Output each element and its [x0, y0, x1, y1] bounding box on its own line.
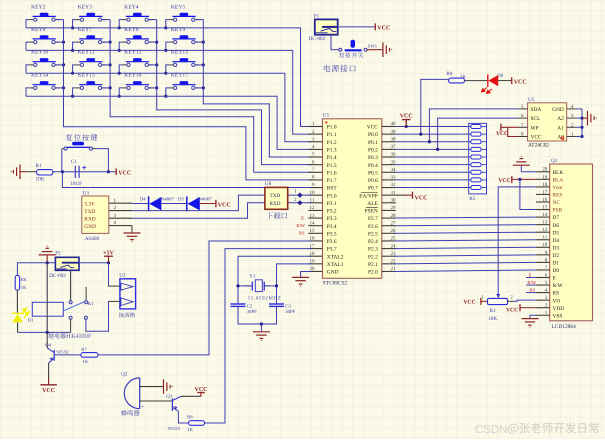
power +5V (P2) [79, 262, 109, 264]
svg-text:Y1: Y1 [249, 273, 256, 279]
svg-text:18: 18 [542, 182, 548, 188]
svg-text:33: 33 [391, 175, 397, 181]
wire KEY8 right leg to column line [148, 41, 156, 43]
svg-text:P0.1: P0.1 [368, 140, 378, 146]
svg-text:P2.6: P2.6 [368, 224, 378, 230]
relay coil box 继电器 [32, 302, 63, 316]
wire XTAL2 to crystal left [238, 256, 311, 304]
wire VCC to PSB [518, 178, 521, 181]
wire KEY13 left leg to row rail [166, 65, 169, 73]
svg-text:1K: 1K [187, 427, 193, 433]
svg-text:P2.7: P2.7 [368, 216, 378, 222]
svg-text:D0: D0 [497, 73, 504, 79]
junction column 2 row 4 [109, 86, 112, 89]
svg-text:30PF: 30PF [285, 309, 295, 315]
svg-text:KEY5: KEY5 [171, 4, 185, 10]
svg-text:P0.0: P0.0 [368, 132, 378, 138]
svg-text:C2: C2 [247, 303, 253, 309]
svg-text:P1.6: P1.6 [327, 170, 337, 176]
capacitor C2 30PF [231, 303, 246, 305]
wire buzzer top to ground [140, 386, 164, 388]
wire KEY3 left leg to row rail [73, 20, 76, 28]
svg-text:Vout: Vout [553, 185, 564, 191]
wire Q3 base to R8 [178, 411, 188, 423]
svg-text:P0.5: P0.5 [368, 170, 378, 176]
power VCC (D0) [511, 77, 513, 84]
wire U1 pin 39 to R5 network [396, 133, 471, 135]
svg-text:13: 13 [542, 220, 548, 226]
wire keypad column 3 to U1 pin 6 [157, 20, 311, 165]
wire K1 lower-right to U2 [86, 301, 109, 331]
wire U1 pin 37 to R5 network [396, 148, 471, 150]
wire +5V to U2 pin [108, 263, 110, 286]
svg-text:U1: U1 [323, 112, 330, 118]
key switch KEY16 [123, 73, 153, 90]
svg-text:12: 12 [310, 205, 316, 211]
svg-text:ALE: ALE [367, 201, 378, 207]
wire P3.7 to R8 [205, 249, 312, 423]
svg-text:40: 40 [391, 121, 397, 127]
svg-text:PSEN: PSEN [365, 209, 378, 215]
svg-text:32: 32 [391, 182, 397, 188]
wire U5 right pins common to ground [581, 109, 583, 137]
svg-text:NC: NC [553, 200, 561, 206]
svg-text:29: 29 [391, 205, 397, 211]
wire Q4 emitter to VCC [48, 363, 50, 379]
svg-text:36: 36 [391, 152, 397, 158]
svg-text:1N4007: 1N4007 [159, 196, 175, 202]
svg-text:VCC: VCC [415, 196, 428, 202]
svg-text:D3: D3 [553, 245, 560, 251]
wire KEY2 right leg to column line [55, 19, 63, 21]
switch K1 [63, 287, 94, 319]
wire KEY16 right leg to column line [148, 87, 156, 89]
svg-text:P0.3: P0.3 [368, 155, 378, 161]
label 双按开关 [339, 53, 364, 58]
wire KEY7 right leg to column line [102, 41, 110, 43]
IC U2 driver [108, 272, 136, 317]
junction row rail 3 at column 3 drop [118, 72, 121, 75]
wire XTAL1 to crystal right [277, 264, 312, 304]
key switch KEY4 [123, 4, 153, 21]
svg-text:30: 30 [391, 198, 397, 204]
wire KEY15 left leg to row rail [73, 88, 76, 96]
junction column 2 row 3 [109, 63, 112, 66]
svg-text:AT24C02: AT24C02 [528, 142, 549, 148]
junction column 1 row 4 [62, 86, 65, 89]
svg-text:P3.4: P3.4 [327, 224, 337, 230]
svg-text:A2: A2 [557, 116, 564, 122]
svg-text:P3.1: P3.1 [327, 201, 337, 207]
svg-text:P1.4: P1.4 [327, 155, 337, 161]
svg-text:D4: D4 [553, 238, 560, 244]
svg-text:C1: C1 [71, 159, 77, 165]
junction column 4 row 2 [202, 41, 205, 44]
svg-text:SW1: SW1 [368, 44, 378, 49]
svg-text:P0.2: P0.2 [368, 147, 378, 153]
svg-text:LCD12864: LCD12864 [552, 324, 577, 330]
svg-text:D1: D1 [553, 261, 560, 267]
svg-text:P3.5: P3.5 [327, 231, 337, 237]
svg-text:AS608: AS608 [85, 236, 100, 242]
wire keypad row rail 1 to U1 pin 1 [26, 28, 311, 127]
wire ground to R1 [20, 171, 26, 173]
svg-text:D7: D7 [553, 215, 560, 221]
svg-text:D0: D0 [553, 268, 560, 274]
wire U5 SDA to P0.1 [429, 109, 518, 142]
wire KEY6 left leg to row rail [26, 42, 29, 50]
svg-text:RST: RST [327, 186, 338, 192]
wire P2.3 to LCD D3 [394, 247, 536, 248]
key switch KEY3 [76, 4, 106, 21]
wire U5 SCL to P0.2 [438, 118, 519, 149]
svg-text:P1.2: P1.2 [327, 140, 337, 146]
svg-text:STC89C52: STC89C52 [323, 280, 348, 286]
svg-text:DC-002: DC-002 [309, 36, 326, 42]
svg-text:Q2: Q2 [121, 371, 128, 377]
svg-text:P2.0: P2.0 [368, 270, 378, 276]
svg-text:34: 34 [391, 167, 397, 173]
wire U1 pin 38 to R5 network [396, 141, 471, 143]
svg-text:R3: R3 [490, 308, 496, 314]
wire U1 pin 35 to R5 network [396, 164, 471, 166]
junction row rail 4 at column 2 drop [71, 95, 74, 98]
svg-text:U6: U6 [265, 181, 272, 187]
wire KEY10 right leg to column line [55, 64, 63, 66]
power VCC (P1) [374, 23, 376, 30]
svg-text:C3: C3 [285, 303, 291, 309]
svg-text:SCL: SCL [531, 116, 541, 122]
wire U1 pin 36 to R5 network [396, 156, 471, 158]
wire AS608 TXD through U6 to P3.0 [132, 195, 311, 211]
wire reset node [53, 171, 116, 173]
potentiometer R3 10K [482, 286, 514, 322]
svg-text:GND: GND [552, 107, 564, 113]
svg-text:15: 15 [310, 228, 316, 234]
svg-text:RS: RS [529, 287, 535, 292]
LED D1 yellow [12, 308, 29, 322]
svg-text:CSDN: CSDN [475, 424, 508, 436]
key switch KEY15 [76, 73, 106, 90]
svg-text:XTAL2: XTAL2 [327, 254, 344, 260]
svg-text:KEY3: KEY3 [78, 4, 92, 10]
svg-text:R9: R9 [447, 71, 453, 77]
power VCC (Q3) [197, 392, 205, 394]
wire KEY11 right leg to column line [102, 64, 110, 66]
wire AS608 GND to ground [131, 226, 133, 233]
wire AS608 RXD through U6 to P3.1 [132, 203, 311, 218]
junction row rail 2 at column 4 drop [164, 49, 167, 52]
svg-text:+5V: +5V [103, 251, 114, 257]
wire R6 to D1 [16, 290, 18, 313]
svg-text:Q4: Q4 [45, 343, 51, 349]
net label R/W (LCD pin5) [526, 284, 536, 286]
svg-text:VCC: VCC [496, 131, 508, 137]
key switch KEY13 [169, 50, 199, 67]
svg-text:RXD: RXD [84, 216, 95, 222]
svg-text:10UF: 10UF [70, 181, 82, 187]
wire P1 to VCC [338, 26, 376, 28]
wire KEY13 right leg to column line [195, 64, 203, 66]
svg-text:BLA: BLA [553, 177, 564, 183]
svg-text:P3.0: P3.0 [327, 193, 337, 199]
svg-text:P3.7: P3.7 [327, 247, 337, 253]
junction row rail 1 at column 2 drop [71, 26, 74, 29]
svg-text:39: 39 [391, 129, 397, 135]
svg-text:D5: D5 [553, 230, 560, 236]
power ground (SW1) [383, 42, 392, 57]
resistor R6 1K [15, 275, 19, 290]
svg-text:GND: GND [84, 224, 96, 230]
wire P2.6 to LCD D6 [394, 225, 536, 226]
svg-text:16: 16 [542, 197, 548, 203]
wire button right leg [96, 149, 109, 172]
svg-text:U5: U5 [528, 97, 535, 103]
junction column 3 row 2 [155, 41, 158, 44]
junction column 4 row 4 [202, 86, 205, 89]
key switch KEY5 [169, 4, 199, 21]
junction column 1 row 2 [62, 41, 65, 44]
wire KEY9 left leg to row rail [166, 42, 169, 50]
key switch KEY12 [123, 50, 153, 67]
power ground (U1 GND) [292, 277, 309, 286]
wire VSS to ground [530, 315, 536, 318]
resistor network R5 [469, 123, 487, 202]
key switch KEY14 [29, 73, 59, 90]
wire KEY7 left leg to row rail [73, 42, 76, 50]
svg-text:VCC: VCC [514, 79, 527, 85]
svg-text:R5: R5 [469, 196, 475, 202]
svg-text:D6: D6 [553, 223, 560, 229]
key switch KEY11 [76, 50, 106, 67]
svg-text:P2.4: P2.4 [368, 239, 378, 245]
label 电源接口 [324, 65, 356, 72]
svg-text:P1.7: P1.7 [327, 178, 337, 184]
wire VO to R3 [514, 300, 537, 301]
power ground (LCD VSS) [522, 319, 539, 328]
svg-text:RS: RS [299, 231, 305, 236]
wire U1 GND pin20 to ground [301, 271, 311, 277]
svg-text:R6: R6 [21, 277, 27, 283]
svg-text:+: + [141, 404, 144, 410]
svg-text:13: 13 [310, 213, 316, 219]
svg-text:D5: D5 [178, 196, 184, 202]
wire KEY4 right leg to column line [148, 19, 156, 21]
wire crystal left lead [238, 285, 252, 287]
wire ground stem [260, 324, 262, 331]
svg-text:DC-002: DC-002 [49, 273, 66, 279]
wire R9 to D0 [465, 80, 488, 82]
wire KEY15 right leg to column line [102, 87, 110, 89]
wire D1 down [17, 322, 19, 332]
wire KEY5 left leg to row rail [166, 20, 169, 28]
power VCC (U1 pin40) [405, 125, 408, 128]
wire KEY16 left leg to row rail [119, 88, 122, 96]
svg-text:17: 17 [542, 189, 548, 195]
key switch KEY2 [29, 4, 59, 21]
power VCC (EA/VPP pin31) [396, 194, 404, 196]
svg-text:P0.7: P0.7 [368, 186, 378, 192]
svg-text:Q1: Q1 [551, 158, 558, 164]
wire keypad row rail 4 to U1 pin 4 [26, 96, 311, 149]
svg-text:30PF: 30PF [247, 309, 257, 315]
wire KEY2 left leg to row rail [26, 20, 29, 28]
wire U1 pin 33 to R5 network [396, 179, 471, 181]
svg-text:U2: U2 [119, 272, 126, 278]
svg-text:R/W: R/W [553, 283, 564, 289]
junction row rail 3 at column 4 drop [164, 72, 167, 75]
wire D4 to D5 [161, 203, 186, 205]
svg-text:D4: D4 [140, 196, 146, 202]
svg-text:20: 20 [542, 167, 548, 173]
wire keypad row rail 2 to U1 pin 2 [26, 50, 311, 134]
crystal Y1 11.0592MHZ [245, 273, 281, 301]
wire keypad column 2 to U1 pin 7 [110, 20, 311, 173]
junction U6/P3.0 [297, 193, 302, 198]
svg-text:VCC: VCC [463, 299, 475, 305]
wire K1 lower-left to rail [70, 319, 72, 332]
svg-text:D1: D1 [28, 317, 34, 323]
svg-text:VCC: VCC [498, 178, 510, 184]
key switch KEY7 [76, 27, 106, 44]
junction column 4 row 3 [202, 63, 205, 66]
svg-text:P1.3: P1.3 [327, 147, 337, 153]
svg-text:P0.6: P0.6 [368, 178, 378, 184]
wire KEY10 left leg to row rail [26, 65, 29, 73]
svg-text:35: 35 [391, 159, 397, 165]
svg-text:R/W: R/W [296, 223, 305, 228]
svg-text:P2.5: P2.5 [368, 231, 378, 237]
wire P2.1 to LCD D1 [394, 262, 536, 263]
switch SW1 self-lock power switch [339, 40, 378, 51]
wire KEY3 right leg to column line [102, 19, 110, 21]
svg-text:WP: WP [531, 125, 539, 131]
power ground (buzzer) [164, 379, 173, 394]
net label E (LCD pin6) [526, 277, 536, 279]
svg-text:VO: VO [553, 298, 561, 304]
wire P2.5 to LCD D5 [394, 232, 536, 233]
svg-text:P2.3: P2.3 [368, 247, 378, 253]
wire crystal right lead [264, 285, 276, 287]
svg-text:P1.5: P1.5 [327, 163, 337, 169]
svg-text:D2: D2 [553, 253, 560, 259]
wire R7 to P3.6 [98, 241, 311, 355]
wire SW1 to ground [367, 49, 383, 51]
power VCC (U5 WP) [508, 126, 519, 128]
wire P2.0 to LCD D0 [394, 270, 536, 272]
net label RS (LCD pin4) [526, 292, 536, 294]
svg-text:VCC: VCC [195, 387, 208, 393]
junction column 2 row 2 [109, 41, 112, 44]
junction row rail 3 at column 2 drop [71, 72, 74, 75]
svg-text:VCC: VCC [367, 125, 378, 131]
junction row rail 1 at column 3 drop [118, 26, 121, 29]
svg-text:P2.1: P2.1 [368, 262, 378, 268]
power ground (AS608) [124, 233, 141, 242]
wire reset node to RST pin9 [62, 172, 311, 188]
svg-text:VCC: VCC [118, 171, 131, 177]
svg-text:RES: RES [553, 193, 563, 199]
svg-text:TXD: TXD [84, 209, 95, 215]
junction P0.0/R9 [419, 133, 422, 136]
power VCC (Q4) [40, 384, 56, 386]
capacitor C3 30PF [269, 303, 284, 305]
svg-text:P1.1: P1.1 [327, 132, 337, 138]
wire U1 pin 32 to R5 network [396, 187, 471, 189]
wire U1 pin 34 to R5 network [396, 171, 471, 173]
wire P2 left node [17, 263, 55, 276]
connector Q1 LCD12864 [536, 158, 593, 330]
wire P2.4 to LCD D4 [394, 240, 536, 241]
power VCC (AS608) [215, 200, 217, 207]
junction P0.2/SCL [436, 148, 439, 151]
svg-text:E: E [301, 215, 304, 220]
svg-text:1K: 1K [21, 285, 27, 291]
svg-text:KEY4: KEY4 [124, 4, 138, 10]
svg-text:14: 14 [542, 212, 548, 218]
wire KEY12 right leg to column line [148, 64, 156, 66]
junction row rail 1 at column 4 drop [164, 26, 167, 29]
wire KEY4 left leg to row rail [119, 20, 122, 28]
power ground (U5) [588, 111, 597, 126]
power ground (LCD BLK) [513, 157, 530, 166]
junction column 3 row 4 [155, 86, 158, 89]
push button 复位按键 [66, 134, 97, 141]
svg-text:P3.3: P3.3 [327, 216, 337, 222]
wire keypad column 4 to U1 pin 5 [203, 20, 311, 157]
svg-text:11: 11 [542, 235, 547, 241]
key switch KEY17 [169, 73, 199, 90]
wire KEY14 right leg to column line [55, 87, 63, 89]
svg-text:12: 12 [542, 227, 548, 233]
svg-text:RXD: RXD [270, 201, 281, 207]
svg-text:3.3V: 3.3V [84, 201, 95, 207]
wire BLK to ground [521, 166, 536, 172]
wire KEY12 left leg to row rail [119, 65, 122, 73]
svg-text:VSS: VSS [553, 313, 563, 319]
svg-text:15: 15 [542, 204, 548, 210]
svg-text:19: 19 [542, 174, 548, 180]
wire Q4 collector [46, 332, 48, 347]
svg-text:1N4007: 1N4007 [196, 196, 212, 202]
wire P1 down to SW1 [331, 34, 339, 50]
power VCC (LCD VDD) [519, 304, 521, 311]
wire relay bottom rail [18, 331, 71, 333]
svg-text:37: 37 [391, 144, 397, 150]
svg-text:VDD: VDD [553, 306, 565, 312]
IC U5 AT24C02 EEPROM [519, 97, 576, 148]
power ground (P2) [39, 246, 56, 255]
wire button left leg [61, 149, 63, 172]
svg-text:VCC: VCC [506, 307, 518, 313]
svg-text:VCC: VCC [400, 113, 413, 119]
svg-text:RS: RS [553, 291, 560, 297]
svg-text:P3.6: P3.6 [327, 239, 337, 245]
wire D0 to VCC [498, 80, 512, 82]
junction P0.1/SDA [428, 140, 431, 143]
svg-text:R8: R8 [187, 414, 193, 420]
wire Q3 emitter to VCC [181, 395, 201, 397]
svg-text:A1: A1 [557, 125, 564, 131]
junction column 3 row 3 [155, 63, 158, 66]
wire U1 pin 40 to R5 network [396, 126, 471, 128]
wire P2 bottom pin to K1 [70, 270, 72, 300]
wire KEY8 left leg to row rail [119, 42, 122, 50]
key switch KEY10 [29, 50, 59, 67]
key switch KEY6 [29, 27, 59, 44]
svg-text:1K: 1K [83, 359, 89, 365]
junction row rail 4 at column 4 drop [164, 95, 167, 98]
